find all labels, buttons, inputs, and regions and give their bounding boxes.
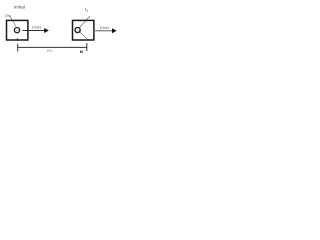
ball A center dot xyxy=(16,30,17,31)
box B (right block) xyxy=(73,20,94,40)
dimension line xyxy=(18,46,87,48)
box A (left block) xyxy=(7,20,28,40)
leader from 10kg to ball A xyxy=(10,16,16,26)
ball B center dot xyxy=(77,30,78,31)
svg-text:10m/s: 10m/s xyxy=(100,26,110,30)
dimension tick right xyxy=(86,43,88,51)
ball A outer circle xyxy=(14,28,19,33)
velocity arrow A head xyxy=(44,28,49,33)
ball B outer circle xyxy=(75,27,80,32)
svg-text:M: M xyxy=(80,50,83,54)
leader from t1 to ball B xyxy=(80,16,90,27)
svg-text:10kg: 10kg xyxy=(5,13,12,17)
velocity arrow B head xyxy=(112,28,117,33)
velocity arrow A shaft xyxy=(23,30,45,32)
dimension tick left xyxy=(17,44,19,52)
stub below box A xyxy=(16,38,18,41)
svg-text:t1: t1 xyxy=(85,7,88,13)
svg-text:10m/s: 10m/s xyxy=(32,26,42,30)
svg-text:Initial: Initial xyxy=(14,4,25,9)
leader from ball B to bottom edge xyxy=(80,32,88,39)
velocity arrow B shaft xyxy=(95,30,112,32)
svg-text:10m: 10m xyxy=(47,49,53,53)
